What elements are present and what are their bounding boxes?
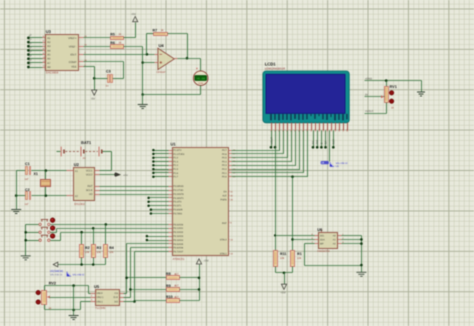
svg-text:P0.6/AD6: P0.6/AD6 <box>173 247 184 250</box>
svg-text:P2.1: P2.1 <box>222 172 227 175</box>
svg-text:P1.3: P1.3 <box>173 160 178 163</box>
svg-text:VREF: VREF <box>96 292 103 295</box>
svg-text:U4: U4 <box>159 43 165 48</box>
svg-text:P2.3: P2.3 <box>222 164 227 167</box>
svg-text:IOUT: IOUT <box>70 53 77 56</box>
svg-text:FM24C64: FM24C64 <box>317 249 330 253</box>
svg-text:P3.2/INT0: P3.2/INT0 <box>173 193 184 196</box>
svg-text:P3.7/RD: P3.7/RD <box>173 212 182 215</box>
svg-text:VCC2: VCC2 <box>86 174 93 177</box>
svg-text:RS: RS <box>312 140 315 144</box>
svg-text:4k7: 4k7 <box>174 285 179 288</box>
svg-text:+VOUT: +VOUT <box>365 110 374 113</box>
svg-text:P2.7: P2.7 <box>222 149 227 152</box>
svg-text:P1.0/T2: P1.0/T2 <box>173 149 182 152</box>
svg-text:C3: C3 <box>106 70 111 74</box>
svg-text:R10: R10 <box>166 295 173 299</box>
svg-text:LCD1: LCD1 <box>265 62 277 67</box>
svg-text:10k: 10k <box>280 257 285 260</box>
svg-text:10k: 10k <box>97 251 102 254</box>
svg-text:P3.1/TXD: P3.1/TXD <box>173 189 183 192</box>
svg-text:AT89C51: AT89C51 <box>173 257 185 261</box>
svg-text:+0.00: +0.00 <box>196 78 205 81</box>
svg-text:XTAL2: XTAL2 <box>220 239 228 242</box>
svg-text:I/O: I/O <box>89 193 92 196</box>
svg-text:ALE: ALE <box>222 195 227 198</box>
svg-text:U1: U1 <box>171 142 177 147</box>
svg-text:R11: R11 <box>280 252 286 256</box>
svg-text:R3: R3 <box>97 246 102 250</box>
svg-text:R9: R9 <box>166 284 171 288</box>
svg-text:P1.5: P1.5 <box>173 168 178 171</box>
svg-text:4k7: 4k7 <box>174 273 179 276</box>
svg-text:VCC1: VCC1 <box>86 170 93 173</box>
svg-text:U5: U5 <box>94 284 100 289</box>
svg-text:COMP: COMP <box>69 61 77 64</box>
svg-text:VEE: VEE <box>71 66 76 69</box>
svg-text:P0.7/AD7: P0.7/AD7 <box>173 251 184 254</box>
svg-text:E: E <box>320 142 323 144</box>
svg-text:+5V: +5V <box>131 12 136 16</box>
svg-text:CLK: CLK <box>113 296 118 299</box>
svg-text:A6: A6 <box>47 58 51 61</box>
svg-text:P0.4/AD4: P0.4/AD4 <box>173 239 184 242</box>
svg-text:C1: C1 <box>25 162 30 166</box>
svg-text:DAC0808: DAC0808 <box>46 71 59 75</box>
svg-text:P0.2/AD2: P0.2/AD2 <box>173 231 184 234</box>
svg-text:RW: RW <box>316 139 319 144</box>
svg-text:+GND: +GND <box>365 78 372 81</box>
svg-text:VAL=0B:1E: VAL=0B:1E <box>72 273 85 276</box>
svg-text:10k: 10k <box>85 251 90 254</box>
svg-text:P1.1/T2EX: P1.1/T2EX <box>173 153 185 156</box>
svg-text:R4: R4 <box>109 246 114 250</box>
svg-text:1nF: 1nF <box>24 203 29 206</box>
svg-text:P3.3/INT1: P3.3/INT1 <box>173 197 184 200</box>
svg-text:A4: A4 <box>47 49 51 52</box>
svg-text:VREF-: VREF- <box>69 45 77 48</box>
svg-text:R5: R5 <box>110 32 115 36</box>
svg-text:PSEN: PSEN <box>220 199 227 202</box>
svg-text:X1: X1 <box>34 172 38 176</box>
svg-text:A3: A3 <box>47 45 51 48</box>
svg-text:U6: U6 <box>317 227 323 232</box>
svg-text:VIN(-): VIN(-) <box>96 300 103 303</box>
svg-text:P2.4: P2.4 <box>222 160 227 163</box>
svg-text:U3: U3 <box>46 29 52 34</box>
svg-text:VAL=08:16: VAL=08:16 <box>50 273 63 276</box>
svg-text:EA: EA <box>224 191 228 194</box>
svg-text:10k: 10k <box>297 257 302 260</box>
svg-text:P1.2: P1.2 <box>173 157 178 160</box>
svg-text:A5: A5 <box>47 54 51 57</box>
svg-text:D/I: D/I <box>325 141 328 145</box>
svg-text:P3.6/WR: P3.6/WR <box>173 209 183 212</box>
svg-text:R6: R6 <box>110 41 115 45</box>
svg-text:A8: A8 <box>47 66 51 69</box>
svg-text:VIN(+): VIN(+) <box>96 296 103 299</box>
svg-text:CS: CS <box>115 292 119 295</box>
svg-text:P2.0: P2.0 <box>222 176 227 179</box>
svg-text:LGM12641BS1R: LGM12641BS1R <box>265 67 285 70</box>
svg-text:Volts: Volts <box>198 82 204 85</box>
svg-text:P1.4: P1.4 <box>173 164 178 167</box>
svg-text:RST: RST <box>332 139 335 145</box>
svg-text:4k7: 4k7 <box>174 296 179 299</box>
svg-text:+5V: +5V <box>204 259 209 263</box>
svg-text:A2: A2 <box>47 41 51 44</box>
svg-text:A1: A1 <box>47 37 51 40</box>
svg-text:1nF: 1nF <box>24 178 29 181</box>
svg-text:R7: R7 <box>153 28 158 32</box>
svg-text:P0.5/AD5: P0.5/AD5 <box>173 243 184 246</box>
svg-text:P2.5: P2.5 <box>222 157 227 160</box>
svg-text:RV1: RV1 <box>390 85 397 89</box>
svg-text:P1.6: P1.6 <box>173 172 178 175</box>
svg-text:DO: DO <box>114 300 118 303</box>
svg-text:+: + <box>196 66 198 70</box>
svg-text:10k: 10k <box>109 251 114 254</box>
svg-text:RST: RST <box>222 222 227 225</box>
svg-text:P2.6: P2.6 <box>222 153 227 156</box>
svg-text:3V: 3V <box>83 157 86 160</box>
svg-text:U2: U2 <box>74 162 80 167</box>
svg-text:TLC549: TLC549 <box>95 306 106 310</box>
svg-text:RV2: RV2 <box>49 281 56 285</box>
svg-text:P0.1/AD1: P0.1/AD1 <box>173 227 184 230</box>
svg-text:A7: A7 <box>47 62 51 65</box>
svg-text:P1.7: P1.7 <box>173 176 178 179</box>
svg-text:RST: RST <box>88 185 93 188</box>
svg-text:SCL: SCL <box>320 234 325 237</box>
svg-text:R2: R2 <box>85 246 90 250</box>
svg-text:P0.3/AD3: P0.3/AD3 <box>173 235 184 238</box>
svg-text:XTAL1: XTAL1 <box>220 252 228 255</box>
svg-text:BAT1: BAT1 <box>81 140 92 145</box>
svg-text:P3.5/T1: P3.5/T1 <box>173 205 182 208</box>
svg-text:SCLK: SCLK <box>86 189 93 192</box>
svg-text:VREF+: VREF+ <box>68 37 77 40</box>
svg-text:VOUT: VOUT <box>271 137 274 145</box>
svg-text:P0.0/AD0: P0.0/AD0 <box>173 223 184 226</box>
svg-text:SDA: SDA <box>320 238 325 241</box>
svg-text:WP: WP <box>320 243 324 246</box>
svg-text:+5V: +5V <box>123 174 128 177</box>
svg-text:-5V: -5V <box>91 96 95 100</box>
svg-text:P2.2: P2.2 <box>222 168 227 171</box>
svg-text:3V: 3V <box>365 94 368 97</box>
svg-text:R8: R8 <box>166 272 171 276</box>
svg-text:DS1302: DS1302 <box>74 202 85 206</box>
svg-text:R1: R1 <box>297 252 302 256</box>
svg-text:P3.4/T0: P3.4/T0 <box>173 201 182 204</box>
svg-text:P3.0/RXD: P3.0/RXD <box>173 185 184 188</box>
svg-text:+5V: +5V <box>281 291 286 295</box>
svg-text:OPAMP: OPAMP <box>157 71 166 74</box>
svg-text:C2: C2 <box>25 188 30 192</box>
